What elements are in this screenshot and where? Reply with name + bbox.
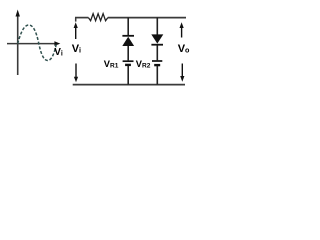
svg-text:Vi: Vi	[72, 43, 81, 55]
svg-text:Vi: Vi	[54, 47, 63, 58]
svg-text:VR1: VR1	[104, 59, 119, 70]
svg-text:VR2: VR2	[136, 59, 151, 70]
svg-text:Vo: Vo	[178, 43, 190, 55]
